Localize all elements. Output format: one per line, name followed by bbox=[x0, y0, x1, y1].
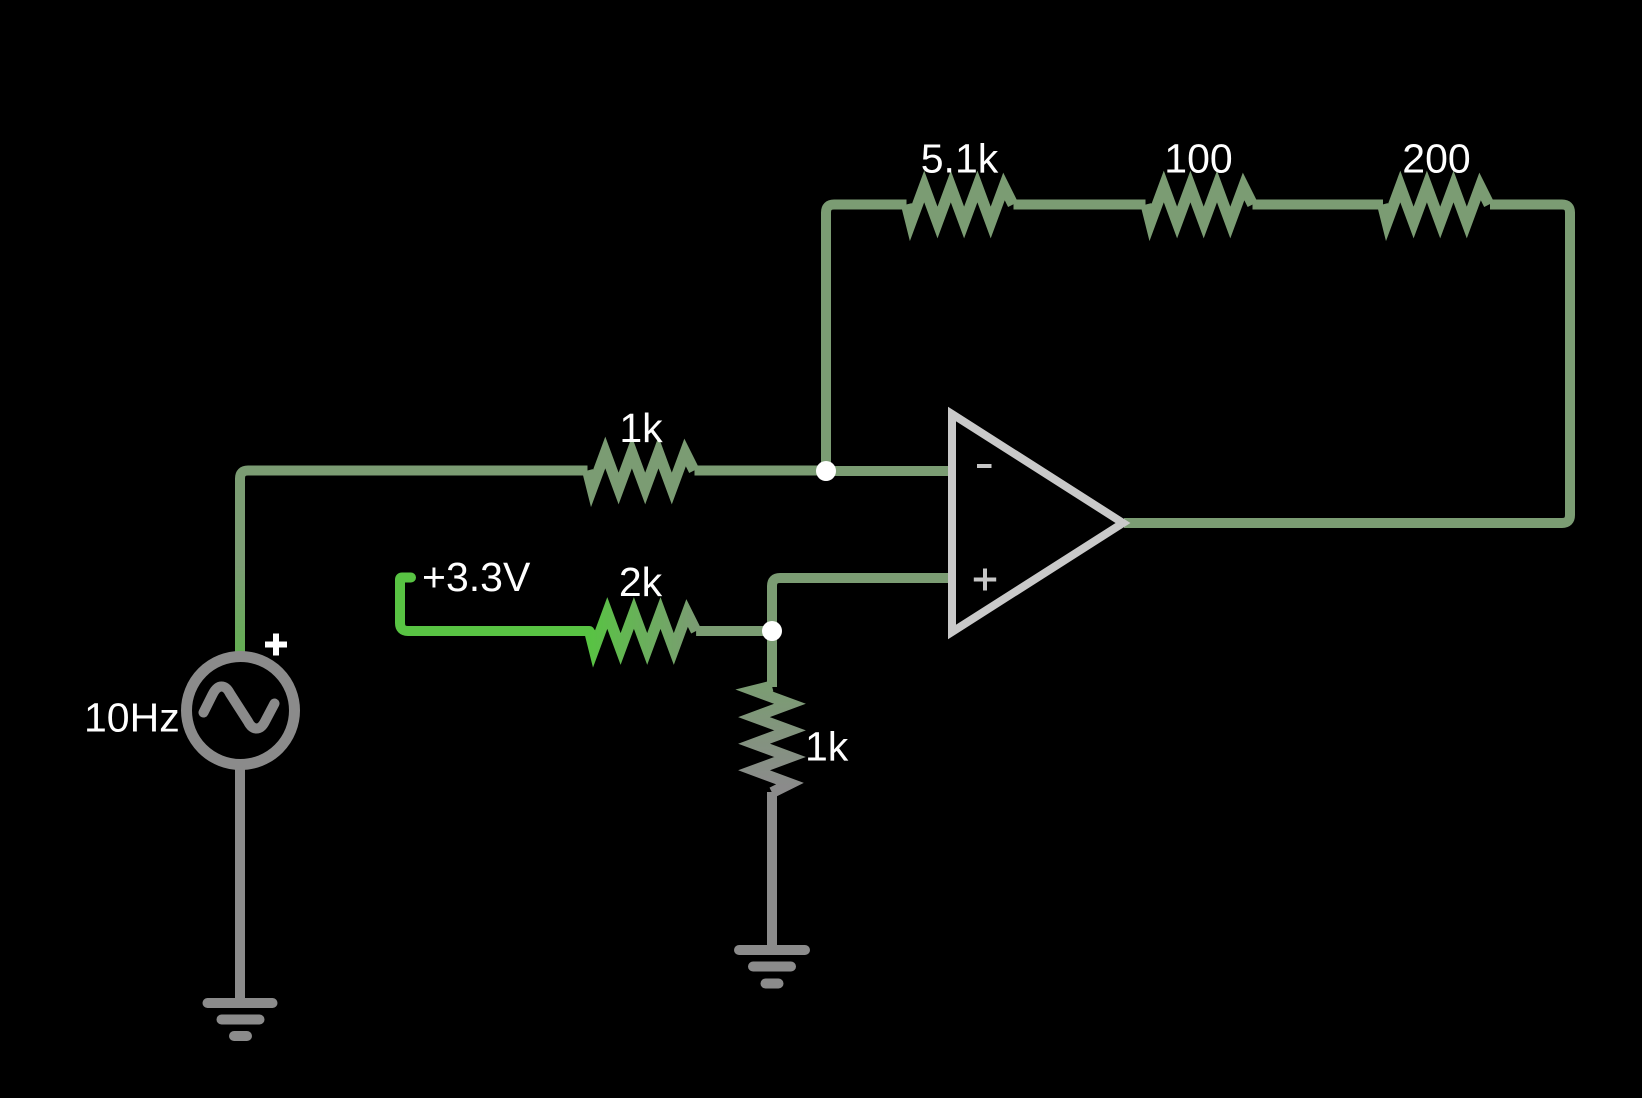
svg-text:10Hz: 10Hz bbox=[84, 695, 180, 741]
resistor R6 1k vertical (gradient) bbox=[754, 686, 790, 793]
wire from source up and right to R4 bbox=[240, 471, 588, 656]
resistor R5 2k (gradient) bbox=[590, 613, 697, 649]
ground under R6 bbox=[739, 950, 805, 984]
op-amp minus marker bbox=[977, 464, 992, 468]
svg-text:5.1k: 5.1k bbox=[921, 136, 999, 182]
AC source sine wave bbox=[204, 687, 275, 729]
svg-text:2k: 2k bbox=[619, 559, 663, 605]
svg-text:1k: 1k bbox=[805, 724, 849, 770]
wire node B down to R6 bbox=[767, 631, 777, 687]
+3.3V terminal bracket bbox=[400, 578, 590, 632]
wire R6 to ground bbox=[767, 792, 777, 946]
source plus polarity marker bbox=[265, 634, 287, 656]
svg-text:1k: 1k bbox=[619, 405, 663, 451]
node A dot bbox=[816, 461, 836, 481]
resistor R3 200 bbox=[1383, 187, 1490, 223]
svg-text:100: 100 bbox=[1164, 136, 1232, 182]
wire source bottom to ground bbox=[235, 766, 245, 999]
op-amp U1 triangle bbox=[952, 414, 1123, 632]
AC source V1 circle bbox=[187, 657, 295, 765]
op-amp plus marker bbox=[974, 569, 996, 591]
wire R4 to node A and into op-amp inverting input bbox=[695, 466, 954, 477]
wire node B up and right to op-amp non-inverting input bbox=[772, 578, 953, 631]
svg-text:+3.3V: +3.3V bbox=[422, 554, 531, 600]
resistor R4 1k input bbox=[588, 453, 695, 489]
resistor R2 100 bbox=[1146, 187, 1253, 223]
ground under source bbox=[208, 1003, 273, 1036]
wire feedback loop from node A up, across top, down right side to op-amp output bbox=[826, 205, 1570, 524]
node B dot bbox=[762, 621, 782, 641]
svg-text:200: 200 bbox=[1402, 136, 1470, 182]
wire R5 to node B bbox=[696, 626, 772, 636]
resistor R1 5.1k bbox=[906, 187, 1013, 223]
